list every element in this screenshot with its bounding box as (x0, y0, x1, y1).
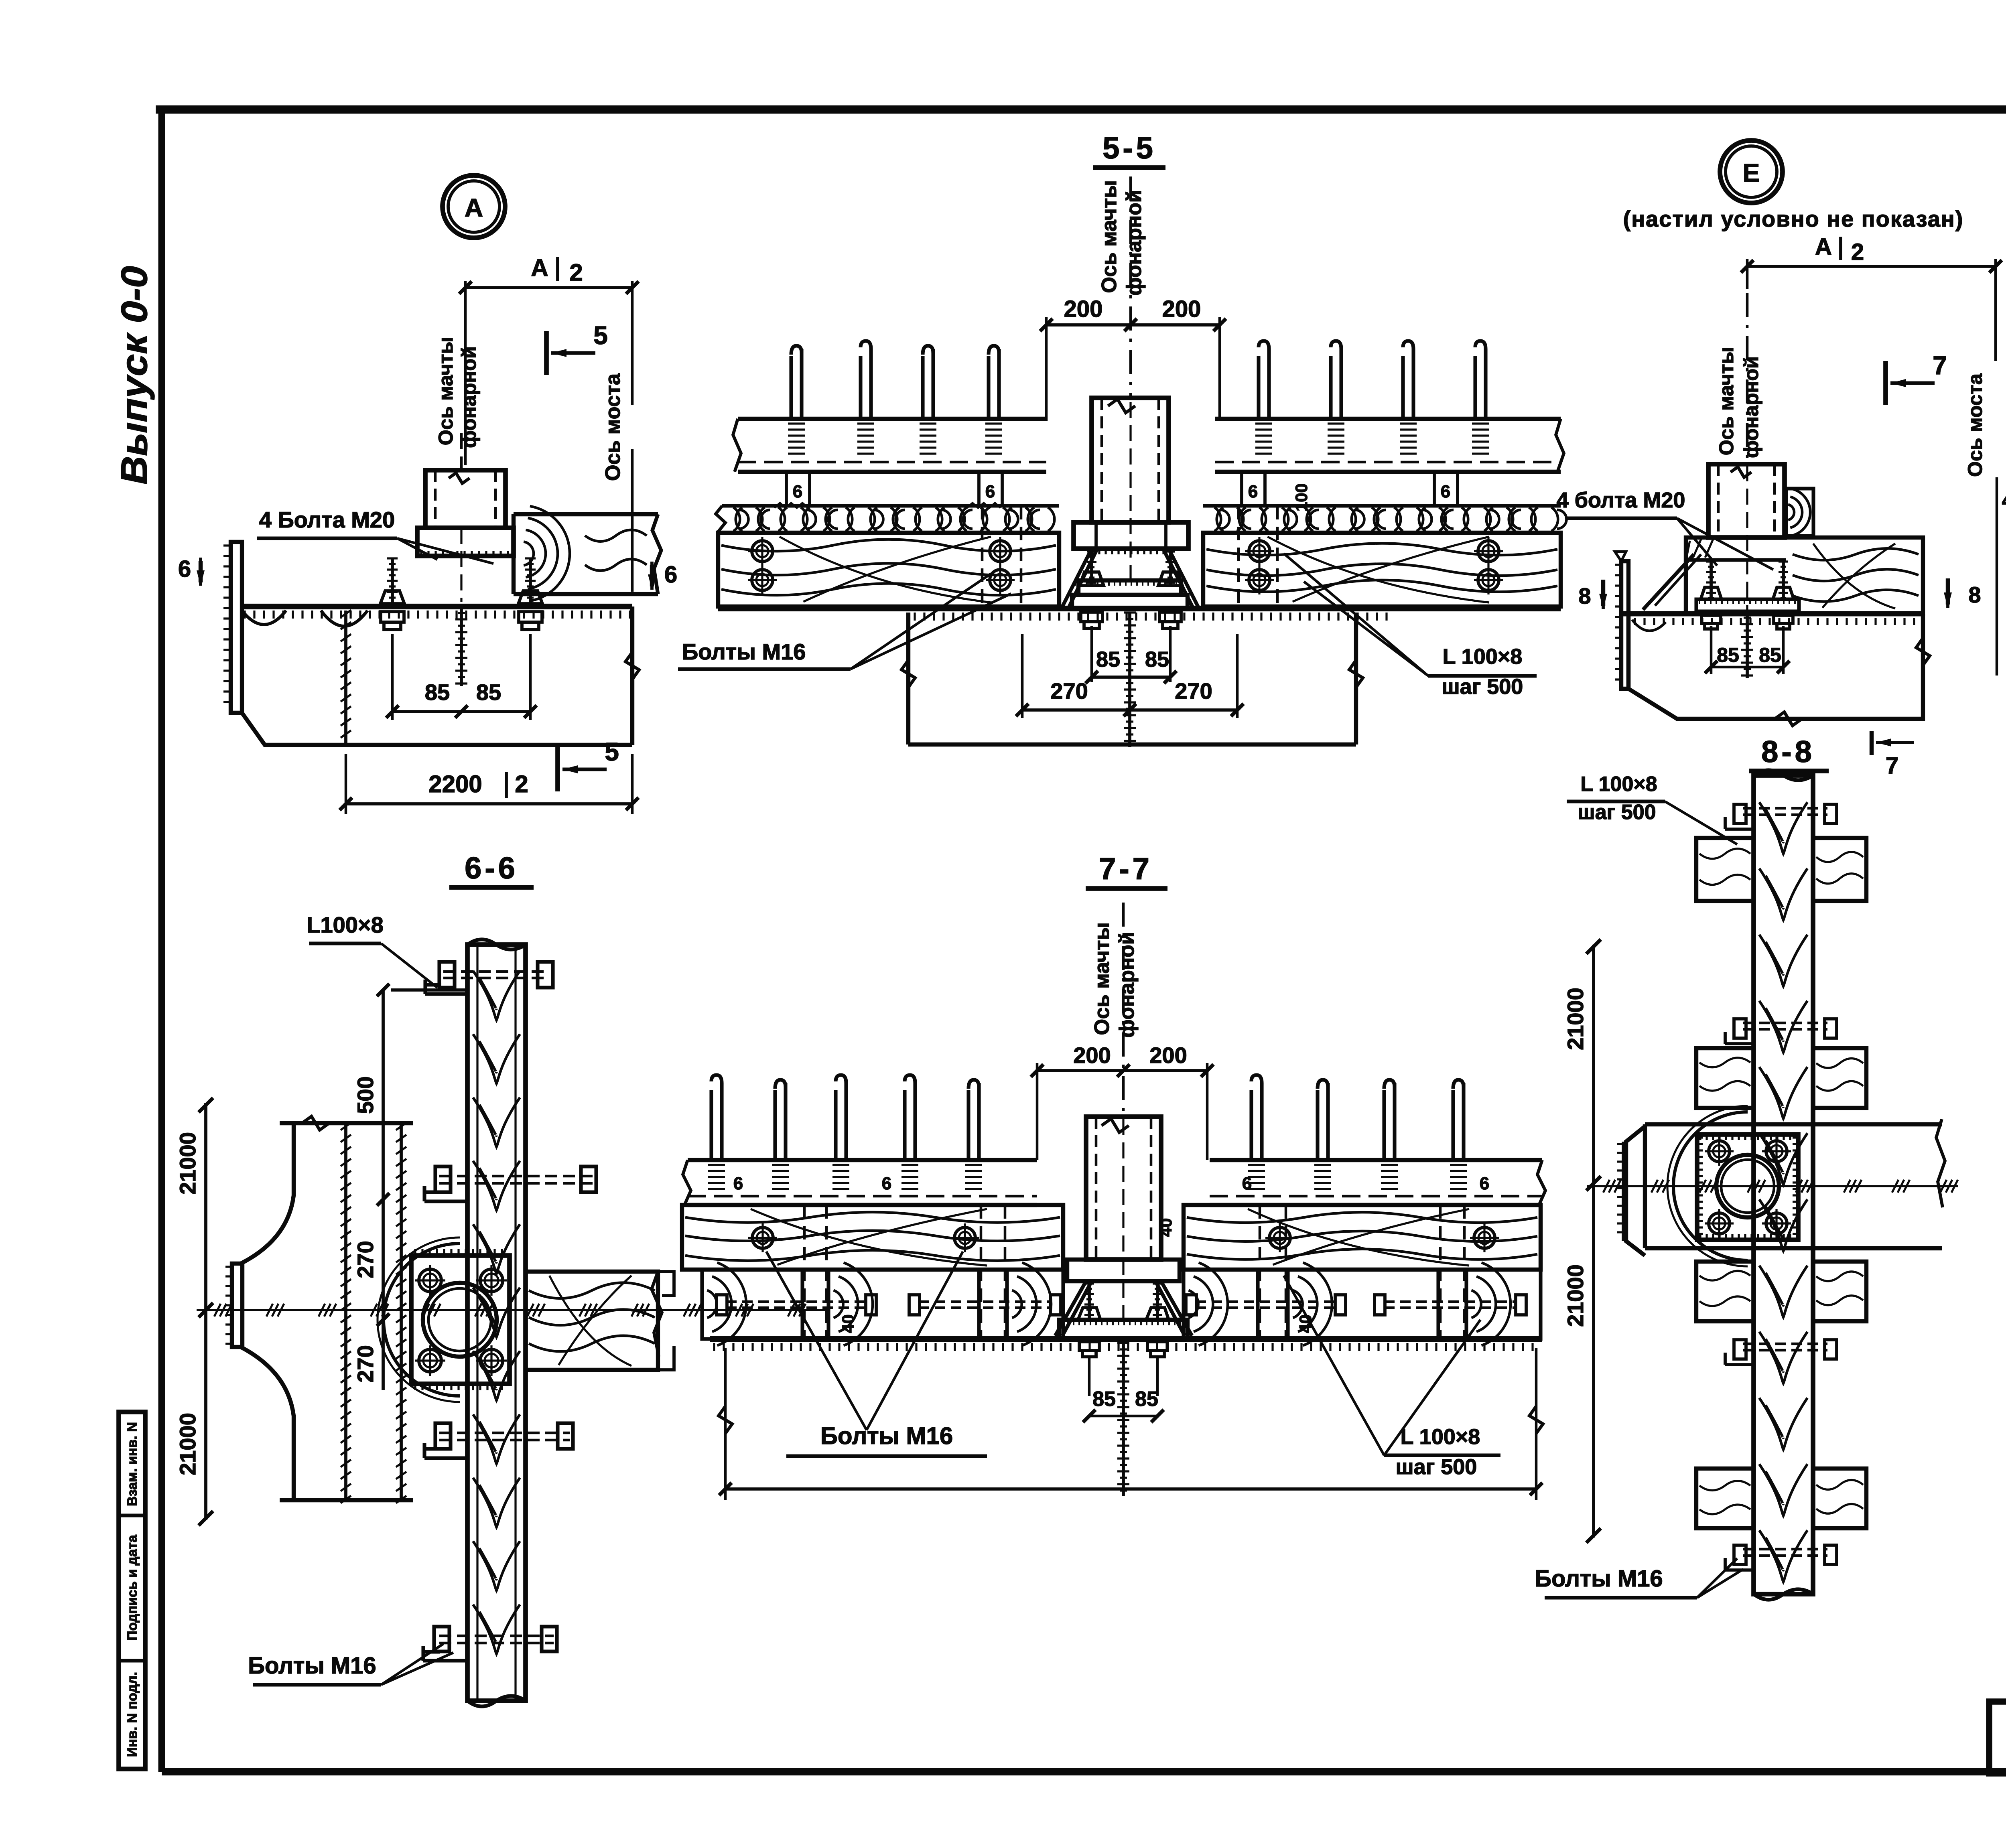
svg-text:L100×8: L100×8 (307, 912, 384, 937)
svg-text:270: 270 (353, 1241, 378, 1278)
svg-text:85: 85 (1717, 644, 1739, 666)
svg-text:7-7: 7-7 (1099, 852, 1153, 886)
svg-text:Подпись и дата: Подпись и дата (125, 1534, 140, 1641)
svg-text:40: 40 (1156, 1218, 1175, 1237)
svg-text:Болты М16: Болты М16 (248, 1653, 376, 1679)
svg-text:200: 200 (1162, 296, 1201, 322)
svg-text:6: 6 (664, 562, 677, 588)
svg-text:200: 200 (1064, 296, 1103, 322)
svg-text:8: 8 (1578, 583, 1591, 609)
svg-text:8-8: 8-8 (1761, 735, 1815, 769)
svg-text:6: 6 (733, 1174, 743, 1193)
svg-text:Болты М16: Болты М16 (820, 1422, 953, 1449)
svg-text:шаг 500: шаг 500 (1442, 675, 1523, 699)
svg-text:200: 200 (1073, 1043, 1111, 1068)
svg-text:6: 6 (1480, 1174, 1489, 1193)
svg-text:85: 85 (476, 680, 501, 705)
svg-text:фонарной: фонарной (1115, 932, 1139, 1038)
svg-text:40: 40 (839, 1314, 857, 1333)
svg-text:85: 85 (1135, 1388, 1158, 1411)
svg-text:270: 270 (1175, 678, 1212, 704)
svg-text:фонарной: фонарной (1740, 356, 1762, 458)
svg-text:Ось моста: Ось моста (1964, 373, 1986, 477)
svg-text:Болты М16: Болты М16 (1535, 1566, 1663, 1592)
svg-text:6: 6 (1441, 482, 1450, 501)
svg-text:2: 2 (569, 259, 583, 286)
svg-text:85: 85 (1759, 644, 1781, 666)
svg-text:Выпуск 0-0: Выпуск 0-0 (114, 266, 155, 485)
svg-text:85: 85 (1092, 1388, 1116, 1411)
svg-text:6: 6 (178, 556, 191, 582)
svg-text:6: 6 (1248, 482, 1258, 501)
svg-text:Ось моста: Ось моста (601, 373, 625, 481)
svg-text:А: А (1815, 234, 1832, 260)
svg-text:21000: 21000 (175, 1132, 200, 1195)
svg-text:21000: 21000 (175, 1413, 200, 1475)
svg-text:21000: 21000 (1563, 1264, 1588, 1327)
svg-text:фонарной: фонарной (458, 346, 480, 448)
svg-text:200: 200 (1149, 1043, 1187, 1068)
svg-text:L 100×8: L 100×8 (1580, 773, 1657, 796)
svg-text:5: 5 (593, 321, 608, 350)
svg-text:5: 5 (605, 737, 619, 766)
svg-text:6: 6 (985, 482, 995, 501)
svg-text:6: 6 (793, 482, 802, 501)
svg-text:4 болта М20: 4 болта М20 (2002, 488, 2006, 512)
svg-text:2200: 2200 (428, 771, 482, 797)
svg-text:7: 7 (1886, 753, 1898, 779)
svg-text:Е: Е (1743, 158, 1760, 187)
svg-text:270: 270 (353, 1345, 378, 1382)
svg-text:85: 85 (1145, 647, 1169, 671)
svg-text:Ось мачты: Ось мачты (1098, 180, 1121, 293)
svg-text:5-5: 5-5 (1102, 131, 1156, 165)
svg-text:Ось мачты: Ось мачты (1090, 922, 1114, 1035)
svg-text:4 болта М20: 4 болта М20 (1557, 488, 1685, 512)
svg-text:85: 85 (1096, 647, 1120, 671)
svg-text:4 Болта М20: 4 Болта М20 (259, 507, 395, 532)
svg-text:270: 270 (1050, 678, 1088, 704)
svg-text:2: 2 (1851, 239, 1864, 265)
svg-text:Болты М16: Болты М16 (682, 639, 806, 664)
svg-text:500: 500 (353, 1076, 378, 1114)
svg-text:шаг 500: шаг 500 (1578, 801, 1656, 824)
svg-text:А: А (531, 254, 548, 281)
svg-text:А: А (465, 193, 483, 222)
svg-text:6: 6 (882, 1174, 891, 1193)
svg-text:L 100×8: L 100×8 (1401, 1425, 1480, 1449)
svg-text:21000: 21000 (1563, 988, 1588, 1050)
svg-text:L 100×8: L 100×8 (1443, 645, 1523, 669)
svg-text:Ось мачты: Ось мачты (434, 337, 457, 445)
svg-text:Взам. инв. N: Взам. инв. N (125, 1422, 140, 1506)
svg-text:85: 85 (425, 680, 450, 705)
svg-text:6: 6 (1242, 1174, 1252, 1193)
svg-text:8: 8 (1968, 582, 1981, 607)
svg-text:7: 7 (1933, 351, 1947, 380)
svg-text:Ось мачты: Ось мачты (1715, 347, 1738, 455)
svg-text:Инв. N подл.: Инв. N подл. (125, 1672, 140, 1757)
svg-text:2: 2 (515, 771, 528, 797)
svg-text:(настил условно не показан): (настил условно не показан) (1623, 206, 1964, 231)
svg-text:фонарной: фонарной (1123, 190, 1146, 296)
svg-text:шаг 500: шаг 500 (1396, 1455, 1477, 1479)
svg-text:6-6: 6-6 (465, 851, 518, 885)
